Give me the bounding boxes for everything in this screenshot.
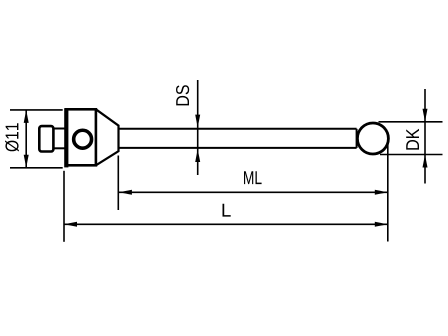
DS crossing wire	[197, 128, 199, 149]
DK dimension line upper	[424, 89, 426, 122]
ML arrow left	[119, 190, 132, 195]
dia11 dimension line	[25, 110, 27, 168]
stem end edge	[356, 129, 358, 148]
neck top wire	[54, 128, 67, 130]
ML extension left	[117, 156, 119, 211]
dia11 extension bottom	[10, 167, 63, 169]
label L	[223, 204, 231, 217]
DK crossing wire	[424, 122, 426, 155]
label dia11	[5, 123, 19, 151]
dia11 arrow down	[24, 155, 29, 168]
ML dimension line	[119, 191, 388, 193]
L arrow left	[64, 222, 77, 227]
DK extension bottom	[380, 154, 443, 156]
thread cylinder (stud)	[39, 126, 53, 151]
L extension left	[63, 171, 65, 242]
ball	[357, 123, 388, 154]
DK dimension line lower	[424, 155, 426, 184]
ML arrow right	[375, 190, 388, 195]
DS dimension line upper	[197, 80, 199, 128]
neck bottom wire	[54, 147, 67, 149]
L arrow right	[375, 222, 388, 227]
stem bottom edge	[119, 147, 357, 149]
L extension right	[387, 140, 389, 242]
DS dimension line lower	[197, 149, 199, 175]
stem top edge	[119, 128, 357, 130]
L dimension line	[64, 223, 388, 225]
DS arrow up	[195, 149, 200, 162]
dia11 arrow up	[24, 110, 29, 123]
flange bar	[64, 108, 68, 167]
hole circle	[74, 130, 92, 148]
label ML	[244, 171, 262, 184]
label DS	[176, 85, 189, 105]
cone taper	[96, 109, 119, 165]
body cylinder	[66, 109, 96, 165]
DS arrow down	[195, 115, 200, 128]
label DK	[406, 129, 419, 150]
DK extension top	[379, 121, 443, 123]
DK arrow up	[423, 155, 428, 168]
dia11 extension top	[10, 109, 63, 111]
DK arrow down	[423, 109, 428, 122]
